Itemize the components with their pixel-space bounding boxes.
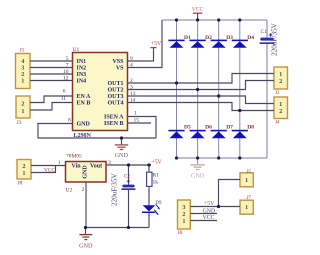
- svg-text:1: 1: [21, 108, 24, 115]
- junction Vout R1: [147, 163, 150, 166]
- svg-text:1: 1: [279, 71, 282, 78]
- junction top bus col1: [175, 18, 178, 21]
- wire J1.3 to U1.IN2: [30, 67, 73, 69]
- svg-text:J5: J5: [247, 170, 252, 175]
- wire U1.VSS to +5V: [128, 48, 154, 61]
- junction +5V J5 tap: [217, 205, 220, 208]
- svg-text:D9: D9: [155, 201, 162, 206]
- svg-text:VCC: VCC: [44, 167, 55, 173]
- svg-text:D7: D7: [226, 125, 233, 131]
- svg-text:J2: J2: [275, 91, 280, 96]
- svg-text:9: 9: [130, 56, 133, 62]
- ground symbol below U1: [115, 138, 129, 159]
- svg-text:1: 1: [245, 204, 248, 211]
- svg-text:220uF/35V: 220uF/35V: [271, 22, 279, 56]
- svg-text:+5V: +5V: [151, 41, 162, 47]
- connector J4: [274, 97, 288, 119]
- svg-text:ISEN B: ISEN B: [104, 121, 124, 127]
- diode D7: [211, 130, 227, 138]
- connector J8: [17, 160, 31, 180]
- power +5V symbol top: [151, 41, 162, 48]
- svg-text:D6: D6: [205, 125, 212, 131]
- svg-text:VCC: VCC: [192, 7, 204, 13]
- wire J3.2 to U1.ENA: [30, 96, 73, 103]
- svg-text:D5: D5: [184, 125, 191, 131]
- svg-text:IN2: IN2: [77, 66, 87, 72]
- svg-text:8: 8: [68, 118, 71, 124]
- svg-text:D8: D8: [247, 125, 254, 131]
- wire J5.1 to +5V net: [219, 180, 241, 207]
- diode D6: [190, 130, 206, 138]
- wire J1.2 to U1.IN3: [30, 73, 73, 75]
- junction gnd under U1: [120, 136, 123, 139]
- svg-text:Vin: Vin: [72, 163, 82, 169]
- svg-text:ISEN A: ISEN A: [104, 115, 124, 121]
- wire diode column 4: [239, 20, 241, 158]
- svg-text:D4: D4: [247, 35, 254, 41]
- wire J1.1 to U1.IN4: [30, 80, 73, 82]
- wire J6.2 GND stub: [190, 213, 217, 215]
- wire J8.1 joins Vin net: [31, 166, 56, 173]
- wire U1.VS to VCC bus: [128, 20, 163, 68]
- svg-text:1k: 1k: [153, 179, 159, 185]
- resistor R1: [147, 165, 152, 205]
- svg-text:2: 2: [279, 78, 282, 85]
- connector J3: [16, 96, 30, 118]
- svg-text:3: 3: [130, 85, 133, 91]
- wire diode column 3: [218, 20, 220, 158]
- svg-text:J3: J3: [17, 120, 22, 126]
- svg-text:Vout: Vout: [90, 163, 102, 169]
- wire diode column 2: [197, 20, 199, 158]
- svg-text:GND: GND: [191, 172, 205, 179]
- junction top bus col3: [217, 18, 220, 21]
- svg-text:10: 10: [63, 69, 69, 75]
- wire U1.OUT2 to J2.2: [128, 81, 275, 90]
- diode D8: [232, 130, 248, 138]
- wire J6.1 VCC stub: [190, 220, 217, 222]
- connector J2: [274, 67, 288, 89]
- wire U1.GND to gnd net: [38, 124, 156, 139]
- svg-text:2: 2: [182, 211, 185, 218]
- svg-text:220uF/35V: 220uF/35V: [111, 173, 119, 207]
- svg-text:U1: U1: [73, 47, 80, 53]
- svg-text:J4: J4: [275, 121, 280, 126]
- wire U1.OUT1 to J2.1: [128, 74, 275, 84]
- junction bottom rail C2: [127, 226, 130, 229]
- svg-text:5: 5: [66, 56, 69, 62]
- diode D2: [190, 40, 206, 48]
- svg-text:C2: C2: [124, 174, 130, 179]
- wire U1.OUT4 to J4.2: [128, 103, 275, 111]
- svg-text:J7: J7: [247, 196, 252, 201]
- junction bottom bus col4: [238, 156, 241, 159]
- diode D1: [168, 40, 184, 48]
- svg-text:IN4: IN4: [77, 79, 87, 85]
- svg-text:GND: GND: [115, 152, 129, 159]
- wire U1.ISENA to gnd net: [128, 117, 157, 139]
- wire U1.ISENB stub: [128, 122, 152, 124]
- svg-text:78M05: 78M05: [66, 154, 82, 160]
- svg-text:EN A: EN A: [77, 94, 92, 100]
- svg-text:GND: GND: [79, 243, 93, 250]
- svg-text:OUT3: OUT3: [107, 94, 123, 100]
- svg-text:OUT4: OUT4: [107, 101, 123, 107]
- svg-text:EN B: EN B: [77, 101, 91, 107]
- diode D5: [168, 130, 184, 138]
- connector J1: [16, 54, 31, 89]
- svg-text:3: 3: [182, 204, 185, 211]
- svg-text:11: 11: [61, 96, 67, 102]
- wire J6.3 to J7.1 +5V net: [190, 206, 240, 208]
- svg-text:1: 1: [134, 111, 137, 117]
- junction OUT1 col1: [175, 81, 178, 84]
- svg-text:IN3: IN3: [77, 72, 87, 78]
- svg-text:R1: R1: [153, 173, 160, 179]
- svg-text:+5V: +5V: [152, 159, 163, 165]
- svg-text:6: 6: [63, 89, 66, 95]
- junction bottom rail U2 gnd: [84, 226, 87, 229]
- power VCC symbol: [192, 7, 204, 20]
- junction top bus col4: [238, 18, 241, 21]
- junction Vout C2: [127, 163, 130, 166]
- svg-text:1: 1: [245, 177, 248, 184]
- svg-text:J6: J6: [178, 230, 183, 236]
- svg-text:1: 1: [22, 170, 25, 177]
- svg-text:VCC: VCC: [203, 215, 215, 221]
- diode D3: [211, 40, 227, 48]
- wire J8.2 to U2.Vin: [31, 165, 66, 167]
- junction bottom bus col3: [217, 156, 220, 159]
- svg-text:4: 4: [130, 63, 133, 69]
- svg-text:14: 14: [130, 98, 136, 104]
- LED D9: [142, 204, 160, 227]
- svg-text:IN1: IN1: [77, 59, 87, 65]
- capacitor C1: [260, 20, 275, 158]
- svg-text:2: 2: [22, 163, 25, 170]
- connector J6: [178, 200, 191, 229]
- op-amp U1 L298N IC body: [73, 53, 128, 131]
- svg-text:+5V: +5V: [204, 201, 215, 207]
- svg-text:VSS: VSS: [112, 59, 124, 65]
- wire diode column 1: [176, 20, 178, 158]
- svg-text:VS: VS: [116, 66, 124, 72]
- svg-text:GND: GND: [77, 122, 91, 128]
- svg-text:1: 1: [182, 218, 185, 225]
- connector J5: [240, 173, 253, 187]
- svg-text:2: 2: [82, 187, 85, 193]
- svg-text:OUT2: OUT2: [107, 88, 123, 94]
- svg-text:OUT1: OUT1: [107, 81, 123, 87]
- junction OUT4 col4: [238, 109, 241, 112]
- svg-text:GND: GND: [203, 208, 216, 214]
- connector J7: [240, 200, 253, 214]
- svg-text:13: 13: [130, 91, 136, 97]
- ground symbol below U2: [79, 228, 93, 250]
- capacitor C2: [121, 165, 135, 228]
- wire bottom gnd rail: [86, 227, 150, 229]
- junction bottom bus col2: [196, 156, 199, 159]
- junction OUT2 col2: [196, 88, 199, 91]
- junction OUT3 col3: [217, 94, 220, 97]
- wire U2.GND down: [85, 182, 87, 228]
- wire U2.Vout +5V net: [106, 164, 151, 166]
- svg-text:GND: GND: [82, 165, 88, 179]
- svg-text:12: 12: [63, 76, 69, 82]
- diode D4: [232, 40, 248, 48]
- ground symbol below diode bus: [190, 158, 205, 179]
- svg-text:2: 2: [21, 100, 24, 107]
- junction bottom bus col1: [175, 156, 178, 159]
- voltage regulator U2 78M05: [66, 162, 107, 183]
- svg-text:1: 1: [279, 101, 282, 108]
- svg-text:2: 2: [130, 78, 133, 84]
- junction top bus col2: [196, 18, 199, 21]
- wire VCC top bus: [162, 19, 267, 21]
- wire bottom GND bus: [177, 157, 268, 159]
- svg-text:2: 2: [279, 108, 282, 115]
- wire J3.1 to U1.ENB: [30, 103, 73, 111]
- svg-text:U2: U2: [66, 188, 73, 194]
- svg-text:J8: J8: [18, 181, 23, 187]
- wire J1.4 to U1.IN1: [30, 60, 73, 62]
- svg-text:1: 1: [58, 160, 61, 166]
- svg-text:1: 1: [21, 78, 24, 85]
- svg-text:C1: C1: [261, 29, 268, 35]
- svg-text:7: 7: [66, 63, 69, 69]
- svg-text:15: 15: [134, 118, 140, 124]
- wire U1.OUT3 to J4.1: [128, 96, 275, 104]
- svg-text:J1: J1: [20, 48, 25, 54]
